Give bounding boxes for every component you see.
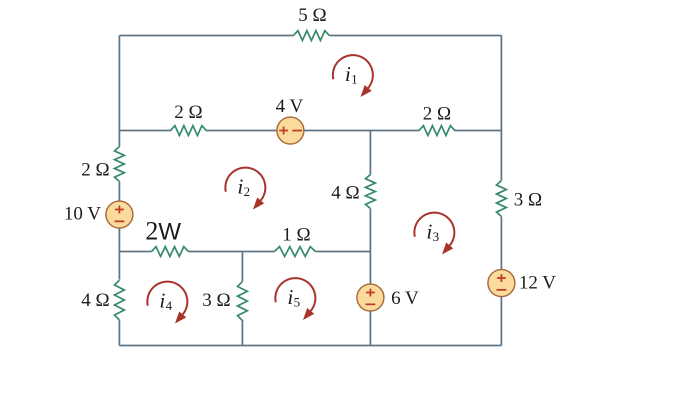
resistor 4 Ohm (bottom left vertical) (115, 280, 125, 320)
svg-text:i: i (287, 285, 293, 309)
wire mid vertical from row2 (369, 131, 371, 175)
svg-text:12 V: 12 V (519, 273, 556, 294)
wire branch 3-ohm bottom (241, 320, 243, 346)
wire top (node top-left to top-right) (119, 35, 293, 37)
svg-text:5 Ω: 5 Ω (298, 5, 326, 26)
wire row2 between 4V and node (304, 130, 420, 132)
resistor 1 Ohm (row3) (274, 247, 315, 257)
svg-text:3 Ω: 3 Ω (202, 290, 230, 311)
voltage source 6 V (357, 284, 384, 311)
mesh current i5 (275, 278, 315, 311)
svg-text:i: i (159, 289, 165, 313)
wire branch 3-ohm top (241, 252, 243, 282)
voltage source 12 V (488, 270, 515, 297)
wire top right of 5-ohm (329, 35, 501, 37)
svg-text:3 Ω: 3 Ω (514, 190, 542, 211)
wire left between 10V and row3 (118, 228, 120, 252)
wire left row3 to 4-ohm (118, 252, 120, 280)
svg-text:2 Ω: 2 Ω (81, 160, 109, 181)
svg-text:3: 3 (433, 229, 440, 244)
wire row2 between 2-ohm and 4V (206, 130, 277, 132)
wire row3 right segment (315, 251, 370, 253)
wire row3 middle segment (188, 251, 274, 253)
svg-text:6 V: 6 V (391, 288, 419, 309)
wire left between 2-ohm and 10V (118, 182, 120, 202)
svg-text:2W: 2W (145, 217, 181, 246)
wire row3 left segment (119, 251, 151, 253)
resistor 5 Ohm (top) (293, 31, 329, 41)
resistor 2W (row3 left) (151, 247, 188, 257)
wire left vertical upper (118, 36, 120, 147)
voltage source 10 V (106, 201, 133, 228)
svg-text:2 Ω: 2 Ω (423, 104, 451, 125)
mesh current i1 (333, 55, 373, 88)
voltage source 4 V (277, 117, 304, 144)
wire right bottom segment (500, 297, 502, 346)
svg-text:2 Ω: 2 Ω (174, 102, 202, 123)
resistor 3 Ohm (right vertical) (497, 181, 507, 217)
svg-text:10 V: 10 V (64, 204, 101, 225)
wire row2 right to right rail (454, 130, 501, 132)
resistor 2 Ohm (row2 right) (419, 126, 455, 136)
resistor 4 Ohm (middle vertical) (366, 175, 376, 209)
svg-text:4 Ω: 4 Ω (81, 290, 109, 311)
wire left bottom segment (118, 320, 120, 346)
svg-text:5: 5 (294, 294, 301, 309)
svg-text:i: i (426, 220, 432, 244)
svg-text:4 Ω: 4 Ω (331, 183, 359, 204)
svg-text:2: 2 (244, 184, 251, 199)
wire mid vertical 6V to bottom (369, 311, 371, 346)
mesh current i3 (414, 213, 454, 246)
svg-text:i: i (345, 62, 351, 86)
wire bottom (119, 345, 501, 347)
svg-text:1: 1 (351, 71, 358, 86)
svg-text:i: i (237, 175, 243, 199)
resistor 3 Ohm (bottom middle vertical) (238, 282, 248, 321)
svg-text:4: 4 (166, 298, 173, 313)
resistor 2 Ohm (row2 left) (170, 126, 206, 136)
wire row2 left segment (119, 130, 171, 132)
wire right between 3-ohm and 12V (500, 217, 502, 270)
svg-text:1 Ω: 1 Ω (282, 225, 310, 246)
mesh current i4 (147, 282, 187, 315)
wire mid vertical 4-ohm to row3 (369, 209, 371, 284)
wire right vertical upper (500, 36, 502, 181)
svg-text:4 V: 4 V (276, 96, 304, 117)
resistor 2 Ohm (left vertical) (115, 147, 125, 182)
mesh current i2 (225, 168, 265, 201)
